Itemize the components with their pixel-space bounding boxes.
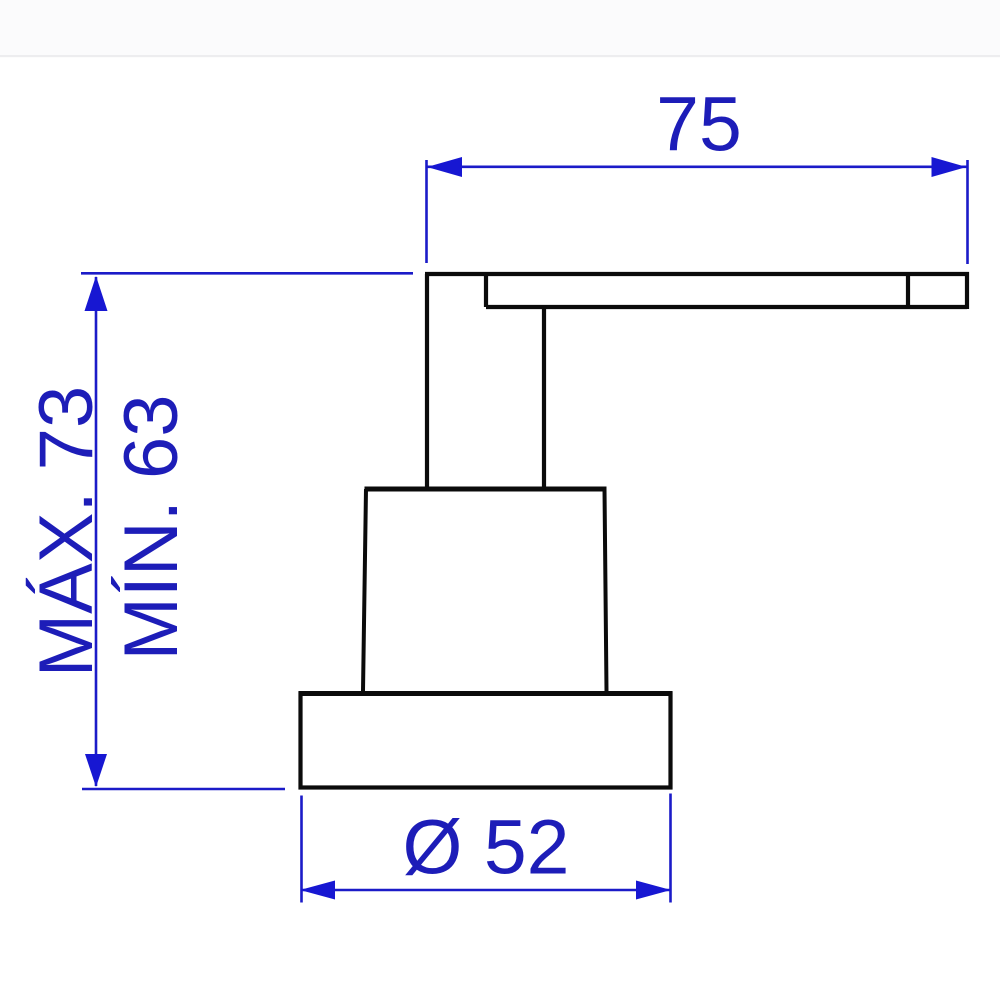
arrowhead MAX/MIN up <box>85 276 108 311</box>
svg-text:Ø 52: Ø 52 <box>403 805 570 891</box>
dim 75: dimension line <box>427 166 967 169</box>
svg-text:75: 75 <box>656 82 742 168</box>
dim 52: left extension line <box>300 796 303 903</box>
faint grey rule <box>0 55 1000 57</box>
dim MAX/MIN: bottom extension line <box>82 788 285 791</box>
dim 75: left extension line <box>425 160 428 263</box>
lever end-cap divider <box>906 274 910 307</box>
dim 75: right extension line <box>966 160 969 264</box>
lever top edge <box>425 272 969 276</box>
dim 52: right extension line <box>669 794 672 903</box>
stem left edge <box>425 274 429 489</box>
mid block trapezoid <box>363 489 607 691</box>
arrowhead 52 left <box>300 881 335 900</box>
faint top band <box>0 0 1000 55</box>
stem right edge <box>542 307 546 489</box>
lever step under left tip <box>484 274 488 307</box>
dim MAX/MIN: dimension line <box>95 277 98 786</box>
base flange top edge thick <box>299 691 673 696</box>
svg-text:MÍN. 63: MÍN. 63 <box>109 394 194 660</box>
svg-text:MÁX. 73: MÁX. 73 <box>24 386 109 677</box>
arrowhead 75 right <box>932 157 967 177</box>
lever right edge <box>965 272 969 309</box>
arrowhead 52 right <box>636 881 671 900</box>
arrowhead MAX/MIN down <box>85 754 107 787</box>
base flange rectangle <box>301 694 671 788</box>
lever bottom edge <box>486 305 967 309</box>
dim MAX/MIN: top extension line <box>81 272 413 275</box>
arrowhead 75 left <box>427 157 462 177</box>
mid block top edge thick <box>365 487 607 492</box>
dim 52: dimension line <box>301 889 671 892</box>
